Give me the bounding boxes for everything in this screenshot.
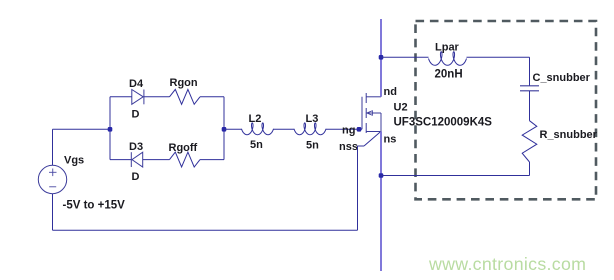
capacitor C_snubber bottom plate: [520, 90, 539, 92]
inductor L2 coil: [242, 123, 274, 135]
wire Vgs top lead: [52, 129, 54, 165]
mosfet U2 gate bar: [361, 97, 363, 130]
wire R_snubber bottom lead: [529, 162, 531, 176]
svg-text:D3: D3: [129, 141, 143, 153]
wire branch vertical down: [109, 129, 111, 159]
diode D3 triangle (points left): [132, 152, 143, 167]
wire to D4 anode: [110, 96, 132, 98]
wire drain bus (net nd): [380, 19, 382, 97]
diode D4 triangle: [132, 90, 143, 105]
wire right vertical down to node: [223, 97, 225, 130]
wire node to L2: [224, 128, 242, 130]
inductor Lpar coil: [429, 52, 467, 66]
svg-text:-5V to +15V: -5V to +15V: [63, 200, 126, 212]
wire Lpar to C_snubber: [467, 56, 530, 58]
diode D3 cathode bar: [130, 152, 132, 167]
wire L2 to L3: [274, 128, 295, 130]
node junction dot drain-snubber tap: [379, 55, 384, 60]
wire Rgon to right corner: [200, 96, 224, 98]
node junction dot source-snubber tap: [379, 173, 384, 178]
node junction dot left branch: [108, 127, 113, 132]
voltage source V1 (Vgs) circle: [38, 165, 66, 193]
wire C_snubber top lead: [529, 57, 531, 86]
wire right vertical up to node: [223, 129, 225, 159]
svg-text:5n: 5n: [306, 140, 319, 152]
wire D3 to Rgoff: [143, 159, 170, 161]
wire C to R lead: [529, 91, 531, 121]
mosfet U2 channel segment middle: [365, 108, 367, 118]
capacitor C_snubber top plate: [520, 85, 539, 87]
svg-text:5n: 5n: [250, 139, 263, 151]
wire nss tick: [358, 145, 365, 147]
resistor Rgoff zigzag: [170, 152, 201, 167]
wire snubber return to source bus: [381, 175, 530, 177]
voltage source plus sign: [49, 169, 57, 177]
node junction dot ng: [357, 127, 362, 132]
svg-text:ng: ng: [342, 125, 355, 137]
wire D4 to Rgon: [144, 96, 170, 98]
svg-text:ns: ns: [384, 134, 397, 146]
mosfet U2 body-to-source: [380, 113, 382, 132]
mosfet U2 channel segment bottom: [365, 123, 367, 133]
resistor R_snubber zigzag: [522, 121, 537, 162]
svg-text:D4: D4: [129, 78, 144, 90]
wire drain tap to Lpar: [381, 56, 429, 58]
svg-text:www.cntronics.com: www.cntronics.com: [428, 254, 586, 274]
wire Vgs bottom lead: [52, 194, 54, 231]
wire nss vertical: [357, 146, 359, 230]
svg-text:20nH: 20nH: [435, 69, 463, 81]
mosfet U2 channel segment top: [365, 93, 367, 103]
mosfet U2 drain lead: [366, 96, 381, 98]
diode D4 cathode bar: [143, 90, 145, 105]
wire Rgoff to right corner: [200, 159, 224, 161]
voltage source minus sign: [49, 186, 56, 188]
svg-text:Lpar: Lpar: [435, 41, 460, 53]
svg-text:L3: L3: [306, 113, 319, 125]
svg-text:D: D: [132, 171, 140, 183]
node junction dot right branch: [222, 127, 227, 132]
svg-text:UF3SC120009K4S: UF3SC120009K4S: [394, 117, 493, 129]
mosfet U2 body arrowhead: [367, 111, 373, 116]
svg-text:nss: nss: [339, 141, 358, 153]
wire L3 to gate (net ng): [326, 128, 362, 130]
wire source bus (net ns): [380, 132, 382, 272]
svg-text:L2: L2: [249, 113, 262, 125]
dashed snubber enclosure box: [416, 21, 597, 199]
mosfet U2 body line: [368, 112, 381, 114]
wire Vgs top to branch node: [53, 128, 111, 130]
wire bottom return: [53, 229, 358, 231]
svg-text:Rgon: Rgon: [170, 77, 198, 89]
wire nss diagonal to source: [364, 132, 381, 146]
inductor L3 coil: [294, 123, 326, 135]
svg-text:R_snubber: R_snubber: [540, 129, 598, 141]
wire to D3 cathode: [110, 159, 131, 161]
svg-text:D: D: [132, 108, 140, 120]
svg-text:C_snubber: C_snubber: [533, 72, 591, 84]
svg-text:nd: nd: [384, 86, 397, 98]
wire branch vertical up: [109, 97, 111, 130]
svg-text:Vgs: Vgs: [64, 155, 84, 167]
resistor Rgon zigzag: [170, 89, 201, 104]
mosfet U2 source lead: [366, 131, 381, 133]
svg-text:Rgoff: Rgoff: [169, 142, 198, 154]
svg-text:U2: U2: [394, 102, 408, 114]
